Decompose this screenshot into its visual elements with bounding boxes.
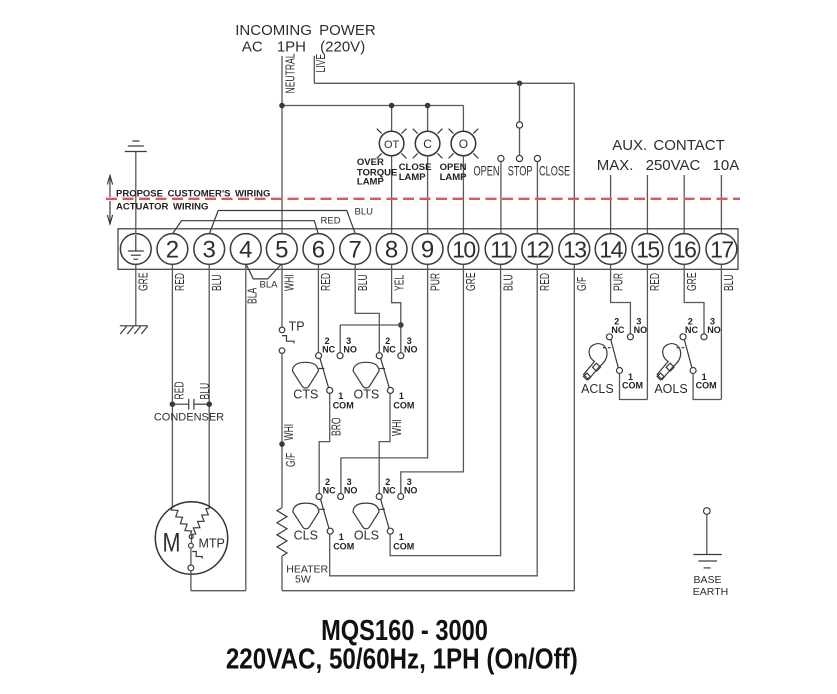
svg-text:AC 1PH (220V): AC 1PH (220V): [242, 39, 365, 56]
svg-text:RED: RED: [320, 273, 334, 291]
svg-text:11: 11: [490, 236, 512, 262]
svg-text:COM: COM: [622, 381, 643, 391]
svg-text:BLU: BLU: [355, 206, 374, 217]
svg-text:NC: NC: [611, 325, 624, 335]
svg-text:10: 10: [452, 236, 475, 262]
svg-text:NO: NO: [404, 486, 418, 496]
svg-text:LAMP: LAMP: [357, 177, 385, 188]
svg-text:NC: NC: [685, 325, 698, 335]
svg-text:5W: 5W: [295, 573, 311, 585]
svg-text:NC: NC: [383, 345, 396, 355]
svg-text:C: C: [423, 137, 432, 151]
svg-text:NO: NO: [343, 345, 357, 355]
svg-text:TP: TP: [289, 320, 305, 334]
svg-text:MAX. 250VAC 10A: MAX. 250VAC 10A: [597, 157, 739, 174]
svg-text:YEL: YEL: [393, 275, 407, 291]
svg-text:OT: OT: [384, 139, 400, 151]
svg-text:14: 14: [599, 236, 623, 262]
svg-text:WHI: WHI: [283, 274, 297, 291]
svg-text:PUR: PUR: [612, 273, 626, 291]
svg-text:BLU: BLU: [723, 274, 737, 291]
svg-text:9: 9: [421, 236, 434, 263]
svg-text:INCOMING POWER: INCOMING POWER: [235, 22, 376, 39]
svg-text:NC: NC: [383, 486, 396, 496]
svg-text:STOP: STOP: [508, 165, 533, 179]
svg-text:15: 15: [636, 236, 659, 262]
svg-text:LIVE: LIVE: [314, 54, 328, 73]
svg-text:NO: NO: [344, 486, 358, 496]
svg-text:MTP: MTP: [199, 537, 225, 551]
svg-text:RED: RED: [173, 381, 187, 399]
svg-text:2: 2: [166, 236, 179, 263]
svg-text:AUX. CONTACT: AUX. CONTACT: [612, 137, 725, 154]
svg-text:BLU: BLU: [198, 383, 212, 400]
svg-text:PROPOSE CUSTOMER'S WIRING: PROPOSE CUSTOMER'S WIRING: [116, 188, 270, 199]
svg-text:GRE: GRE: [685, 272, 699, 291]
svg-text:8: 8: [385, 236, 398, 263]
svg-text:NO: NO: [634, 325, 648, 335]
svg-text:7: 7: [349, 236, 362, 263]
svg-text:COM: COM: [393, 401, 414, 411]
svg-text:BASE: BASE: [694, 574, 722, 586]
svg-text:RED: RED: [174, 273, 188, 291]
svg-text:NO: NO: [707, 325, 721, 335]
svg-text:BRO: BRO: [330, 417, 344, 436]
svg-text:GRE: GRE: [137, 272, 151, 291]
svg-text:COM: COM: [333, 542, 354, 552]
svg-text:BLU: BLU: [356, 274, 370, 291]
svg-text:AOLS: AOLS: [654, 382, 687, 396]
svg-text:EARTH: EARTH: [693, 586, 728, 598]
svg-text:NC: NC: [322, 345, 335, 355]
svg-text:NEUTRAL: NEUTRAL: [284, 54, 298, 94]
svg-text:ACTUATOR WIRING: ACTUATOR WIRING: [116, 201, 208, 212]
svg-text:O: O: [459, 137, 468, 151]
svg-text:ACLS: ACLS: [581, 382, 614, 396]
svg-text:1: 1: [339, 532, 344, 542]
svg-text:G/F: G/F: [284, 453, 298, 467]
svg-text:GRE: GRE: [465, 272, 479, 291]
svg-text:12: 12: [526, 236, 549, 262]
svg-text:220VAC, 50/60Hz, 1PH (On/Off): 220VAC, 50/60Hz, 1PH (On/Off): [226, 642, 578, 675]
svg-text:RED: RED: [649, 273, 663, 291]
svg-text:3: 3: [203, 236, 216, 263]
svg-text:PUR: PUR: [429, 273, 443, 291]
svg-text:13: 13: [563, 236, 586, 262]
svg-text:6: 6: [312, 236, 325, 263]
svg-text:CONDENSER: CONDENSER: [154, 412, 224, 424]
svg-text:1: 1: [399, 391, 404, 401]
svg-text:BLA: BLA: [260, 279, 279, 290]
svg-text:CLS: CLS: [294, 529, 318, 543]
svg-text:BLU: BLU: [210, 274, 224, 291]
svg-text:OLS: OLS: [354, 529, 379, 543]
svg-text:M: M: [163, 528, 181, 558]
svg-text:COM: COM: [393, 542, 414, 552]
svg-text:16: 16: [673, 236, 696, 262]
svg-text:4: 4: [239, 236, 252, 263]
svg-text:LAMP: LAMP: [399, 172, 427, 183]
svg-text:G/F: G/F: [575, 277, 589, 291]
svg-text:OTS: OTS: [354, 388, 380, 402]
svg-text:OPEN: OPEN: [474, 165, 500, 179]
svg-text:COM: COM: [696, 381, 717, 391]
svg-text:BLA: BLA: [246, 287, 260, 304]
svg-text:RED: RED: [538, 273, 552, 291]
svg-text:1: 1: [338, 391, 343, 401]
svg-text:5: 5: [275, 236, 288, 263]
svg-text:17: 17: [710, 236, 733, 262]
svg-text:RED: RED: [321, 216, 341, 227]
svg-text:CTS: CTS: [293, 388, 318, 402]
svg-text:BLU: BLU: [502, 274, 516, 291]
svg-text:1: 1: [399, 532, 404, 542]
svg-text:LAMP: LAMP: [440, 172, 468, 183]
svg-text:WHI: WHI: [282, 424, 296, 441]
svg-text:CLOSE: CLOSE: [539, 165, 570, 179]
svg-text:WHI: WHI: [390, 419, 404, 436]
svg-text:COM: COM: [333, 401, 354, 411]
svg-text:NO: NO: [404, 345, 418, 355]
svg-text:NC: NC: [323, 486, 336, 496]
